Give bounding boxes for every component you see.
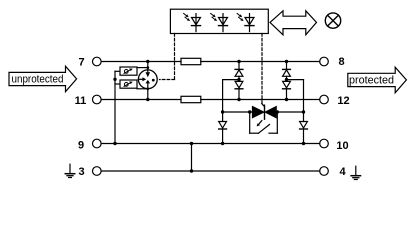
junction line9 / D5 (221, 142, 224, 145)
junction line9 / D6 (302, 142, 305, 145)
LED V2 (211, 13, 228, 31)
LED V3 (237, 13, 254, 31)
fail-safe element box bottom (115, 80, 148, 89)
junction mid rail / switch right (276, 110, 279, 113)
svg-text:unprotected: unprotected (12, 74, 64, 86)
junction line7 / D3 stack (285, 60, 288, 63)
terminal 8 (320, 57, 329, 66)
junction GDT top electrode (146, 66, 149, 69)
protected arrow label (348, 67, 407, 93)
diode D6 to ground right (300, 122, 308, 144)
gas discharge tube F1 (138, 62, 157, 100)
diode stack left bottom D2 (235, 81, 243, 99)
junction line7 / GDT top (146, 60, 149, 63)
junction mid rail right end (302, 110, 305, 113)
ground symbol left (65, 164, 74, 177)
LED V1 (184, 13, 201, 31)
terminal 4 (320, 167, 329, 176)
junction GDT bottom electrode (146, 87, 149, 90)
junction line11 / GDT bottom (146, 98, 149, 101)
wire ground link 9 to 3 (191, 144, 193, 172)
wire left branch vertical (222, 80, 224, 122)
junction line11 / D4 stack (285, 98, 288, 101)
terminal 3 (93, 167, 102, 176)
diode stack left top D1 (235, 62, 243, 82)
junction mid rail left end (221, 110, 224, 113)
wire line 11 right (201, 99, 320, 101)
wire line 9-10 (101, 143, 320, 145)
svg-text:3: 3 (78, 166, 84, 178)
ground symbol right (351, 166, 360, 179)
dashed link to GDT (160, 34, 175, 80)
wire stack left midpoint (223, 79, 239, 81)
junction fail-safe node (113, 78, 116, 81)
wire line 11 left (101, 99, 181, 101)
resistor R1 (181, 58, 201, 64)
terminal 10 (320, 139, 329, 148)
dashed link to TVS/thermal switch (261, 34, 263, 104)
unprotected arrow label (9, 66, 77, 92)
indicator box (LED status window) (170, 9, 268, 33)
terminal 11 (93, 95, 102, 104)
svg-text:protected: protected (349, 75, 394, 87)
junction line11 / D2 stack (237, 98, 240, 101)
wire line 7 right (201, 61, 320, 63)
svg-text:9: 9 (78, 140, 84, 152)
svg-text:4: 4 (339, 166, 346, 178)
svg-text:7: 7 (78, 56, 84, 68)
wire right branch vertical (303, 80, 305, 122)
junction right stack midpoint (285, 78, 288, 81)
terminal 9 (93, 139, 102, 148)
mid rail left (223, 111, 253, 113)
terminal 7 (93, 57, 102, 66)
double arrow (bidirectional) (270, 11, 317, 35)
wire line 3-4 (101, 170, 320, 172)
TVS suppressor (bidirectional) (253, 105, 277, 119)
thermal disconnect switch (250, 112, 278, 133)
diode stack right top D3 (283, 62, 291, 82)
junction line3 / ground link (190, 169, 193, 172)
svg-text:11: 11 (75, 95, 87, 107)
mid rail right (276, 111, 303, 113)
junction line7 / D1 stack (237, 60, 240, 63)
diode stack right bottom D4 (283, 81, 291, 99)
diode D5 to ground left (219, 122, 227, 144)
resistor R2 (181, 96, 201, 102)
svg-text:8: 8 (338, 56, 344, 68)
junction mid rail / switch left (248, 110, 251, 113)
fail-safe ground wire (114, 71, 116, 143)
wire line 7 left (101, 61, 181, 63)
svg-text:12: 12 (337, 95, 349, 107)
junction left stack midpoint (237, 78, 240, 81)
junction line9 / ground link (190, 142, 193, 145)
fail-safe element box top (115, 67, 148, 75)
junction line9 / fail-safe wire (113, 142, 116, 145)
svg-text:10: 10 (336, 140, 348, 152)
wire stack right midpoint (287, 79, 304, 81)
lamp symbol (remote indication) (325, 13, 340, 28)
terminal 12 (320, 95, 329, 104)
